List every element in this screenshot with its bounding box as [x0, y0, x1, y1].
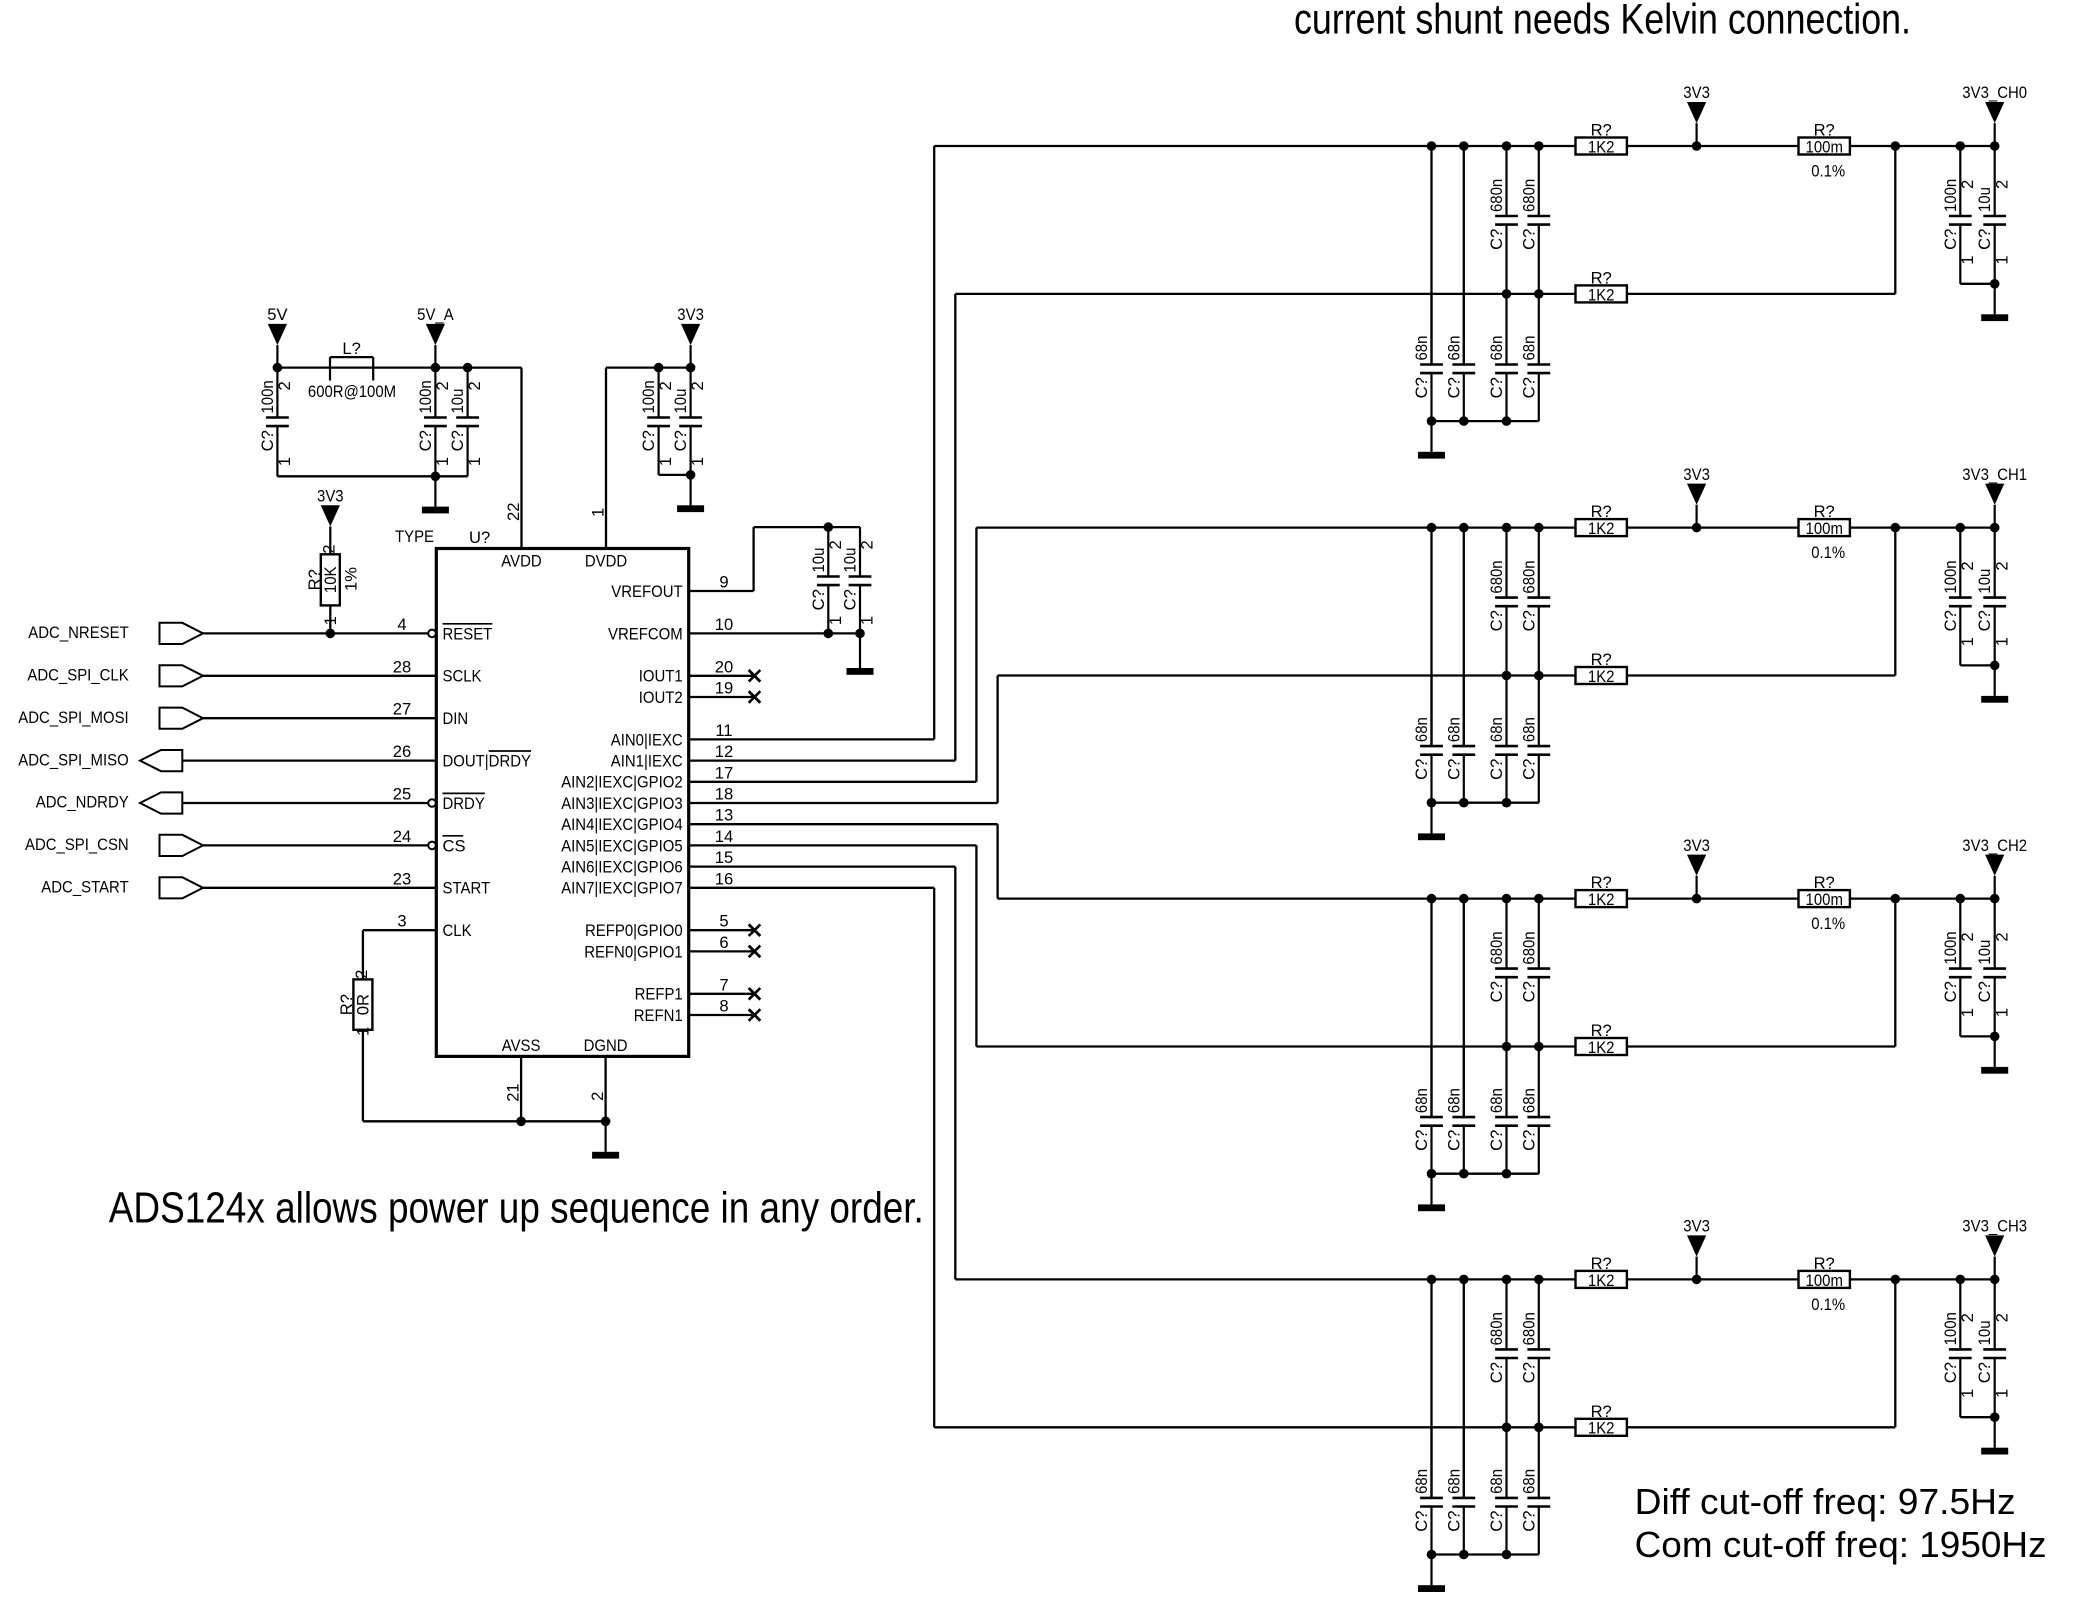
svg-text:3V3_CH1: 3V3_CH1: [1962, 465, 2027, 484]
svg-text:1: 1: [688, 457, 707, 466]
inductor L? 600R@100M: [308, 339, 396, 401]
junction CH0- cap bus a: [1502, 289, 1512, 299]
svg-text:DGND: DGND: [584, 1036, 628, 1055]
svg-text:14: 14: [715, 827, 733, 846]
ground CH3 output: [1981, 1417, 2008, 1454]
junction CH3+ cap bus: [1427, 1275, 1437, 1285]
svg-text:68n: 68n: [1444, 1469, 1463, 1494]
svg-text:680n: 680n: [1519, 931, 1538, 964]
capacitor C? 10u (VREF b): [841, 527, 877, 633]
junction CH2- cap bus b: [1534, 1042, 1544, 1052]
power flag 3V3 CH3: [1683, 1217, 1710, 1280]
capacitor C? 68n CH2 a: [1412, 1047, 1443, 1174]
power flag 3V3_CH2: [1962, 836, 2027, 899]
svg-text:AIN1|IEXC: AIN1|IEXC: [611, 752, 683, 771]
svg-text:AIN6|IEXC|GPIO6: AIN6|IEXC|GPIO6: [561, 858, 683, 877]
svg-text:REFN1: REFN1: [634, 1006, 683, 1025]
no-connect REFP0: [749, 924, 761, 936]
svg-text:C?: C?: [1444, 377, 1463, 398]
svg-text:1: 1: [1958, 1008, 1977, 1017]
resistor R? 1K2 CH2-: [1576, 1021, 1627, 1057]
junction CH3+ cap bus: [1534, 1275, 1544, 1285]
junction CH3+ cap bus: [1459, 1275, 1469, 1285]
svg-text:1K2: 1K2: [1588, 1271, 1615, 1290]
capacitor C? 100n (5V_A): [416, 368, 452, 477]
svg-text:C?: C?: [1975, 981, 1994, 1002]
svg-text:C?: C?: [1412, 759, 1431, 780]
junction 100n cap 3V3: [654, 363, 664, 373]
svg-text:68n: 68n: [1444, 717, 1463, 742]
capacitor C? 68n CH0 d: [1519, 294, 1550, 421]
wire CH2 output caps bus: [1960, 1035, 1994, 1037]
wire REFN0 stub: [689, 950, 755, 952]
wire CH0+ row mid: [1627, 145, 1799, 147]
junction CH0 gnd bus b: [1459, 416, 1469, 426]
svg-text:2: 2: [1958, 180, 1977, 189]
junction CH3- cap bus a: [1502, 1423, 1512, 1433]
svg-text:21: 21: [503, 1083, 522, 1101]
junction CH3 gnd bus b: [1459, 1550, 1469, 1560]
svg-text:C?: C?: [1519, 981, 1538, 1002]
svg-text:2: 2: [588, 1092, 607, 1101]
svg-text:AIN2|IEXC|GPIO2: AIN2|IEXC|GPIO2: [561, 773, 683, 792]
wire DVDD pin 1: [605, 368, 607, 549]
wire CH3 col2 through: [1463, 1279, 1465, 1498]
svg-text:5V_A: 5V_A: [417, 305, 454, 324]
svg-text:1K2: 1K2: [1588, 285, 1615, 304]
input port ADC_START: [41, 877, 203, 898]
junction CH0 3V3 feed: [1692, 141, 1702, 151]
svg-text:1: 1: [858, 616, 877, 625]
wire CH1+ row left: [976, 526, 1575, 528]
svg-text:C?: C?: [1941, 229, 1960, 250]
svg-text:0.1%: 0.1%: [1811, 543, 1845, 562]
svg-text:CLK: CLK: [443, 921, 472, 940]
svg-text:68n: 68n: [1487, 717, 1506, 742]
junction CH2+ cap bus: [1427, 894, 1437, 904]
svg-text:10u: 10u: [1975, 569, 1994, 594]
svg-text:ADC_SPI_CSN: ADC_SPI_CSN: [25, 835, 129, 854]
junction VREFCOM cap a: [824, 629, 834, 639]
junction CH2 gnd bus b: [1459, 1169, 1469, 1179]
wire CH3 Kelvin sense riser: [1894, 1279, 1896, 1427]
svg-text:C?: C?: [809, 589, 828, 610]
junction CH2+ cap bus: [1534, 894, 1544, 904]
svg-text:C?: C?: [1487, 377, 1506, 398]
svg-text:IOUT2: IOUT2: [639, 688, 683, 707]
svg-text:680n: 680n: [1519, 560, 1538, 593]
resistor R? 0R: [337, 970, 373, 1036]
wire 5V caps ground bus: [277, 475, 467, 477]
svg-text:3V3: 3V3: [677, 305, 704, 324]
junction CH2+ cap bus: [1502, 894, 1512, 904]
svg-text:0.1%: 0.1%: [1811, 162, 1845, 181]
capacitor C? 10u (3V3): [671, 368, 707, 475]
svg-text:C?: C?: [1941, 1362, 1960, 1383]
svg-text:1: 1: [1958, 637, 1977, 646]
svg-text:1: 1: [1958, 1389, 1977, 1398]
svg-text:2: 2: [275, 381, 294, 390]
svg-text:20: 20: [715, 657, 733, 676]
svg-text:3V3_CH2: 3V3_CH2: [1962, 836, 2027, 855]
svg-text:DOUT|DRDY: DOUT|DRDY: [443, 752, 532, 771]
junction CH2 Kelvin tap: [1891, 894, 1901, 904]
svg-text:AIN7|IEXC|GPIO7: AIN7|IEXC|GPIO7: [561, 879, 683, 898]
svg-text:2: 2: [1992, 561, 2011, 570]
svg-text:C?: C?: [448, 430, 467, 451]
capacitor C? 68n CH1 c: [1487, 676, 1518, 803]
capacitor C? 100n CH2: [1941, 899, 1977, 1037]
wire AIN5 to CH2- stub: [689, 844, 977, 846]
junction CH3 100n: [1956, 1275, 1966, 1285]
svg-text:2: 2: [1958, 932, 1977, 941]
junction CH3 10u: [1990, 1275, 2000, 1285]
svg-text:28: 28: [393, 657, 411, 676]
svg-text:AIN3|IEXC|GPIO3: AIN3|IEXC|GPIO3: [561, 794, 683, 813]
svg-text:C?: C?: [1975, 610, 1994, 631]
wire CH3 68n ground bus: [1432, 1553, 1539, 1555]
svg-text:C?: C?: [1975, 229, 1994, 250]
svg-text:3V3: 3V3: [1683, 465, 1710, 484]
svg-text:2: 2: [1958, 561, 1977, 570]
resistor R? 1K2 CH1+: [1576, 502, 1627, 538]
wire AIN4 to CH2+ stub: [689, 823, 998, 825]
svg-text:2: 2: [688, 381, 707, 390]
wire VREFOUT riser: [752, 527, 754, 591]
junction VREFOUT cap: [824, 522, 834, 532]
junction CH1 gnd bus a: [1427, 798, 1437, 808]
junction CH1- cap bus a: [1502, 671, 1512, 681]
junction CH0 10u: [1990, 141, 2000, 151]
op-amp U? ADC IC body: [436, 549, 688, 1057]
wire REFP1 stub: [689, 993, 755, 995]
wire CH1+ row right: [1850, 526, 1995, 528]
svg-text:1: 1: [433, 457, 452, 466]
svg-text:current shunt needs Kelvin con: current shunt needs Kelvin connection.: [1294, 0, 1911, 43]
junction CH3 output caps: [1990, 1412, 2000, 1422]
svg-text:23: 23: [393, 869, 411, 888]
svg-text:1K2: 1K2: [1588, 890, 1615, 909]
capacitor C? 10u CH0: [1975, 146, 2011, 284]
junction CH0 output caps: [1990, 279, 2000, 289]
svg-text:C?: C?: [1487, 610, 1506, 631]
svg-text:68n: 68n: [1487, 1088, 1506, 1113]
svg-text:100m: 100m: [1806, 519, 1843, 538]
junction CH1+ cap bus: [1427, 523, 1437, 533]
svg-text:15: 15: [715, 848, 733, 867]
capacitor C? 680n CH1 b: [1519, 528, 1550, 676]
capacitor C? 100n CH0: [1941, 146, 1977, 284]
svg-text:10u: 10u: [1975, 1321, 1994, 1346]
svg-text:19: 19: [715, 679, 733, 698]
ground CH3 filter: [1418, 1555, 1445, 1592]
output port ADC_NDRDY: [36, 792, 183, 813]
wire 5V/5V_A rail: [277, 366, 521, 368]
junction CH0+ cap bus: [1427, 141, 1437, 151]
ground CH2 output: [1981, 1036, 2008, 1073]
wire ADC_SPI_MOSI to DIN: [203, 717, 436, 719]
svg-text:C?: C?: [1412, 1511, 1431, 1532]
svg-text:600R@100M: 600R@100M: [308, 382, 396, 401]
svg-text:REFN0|GPIO1: REFN0|GPIO1: [584, 942, 683, 961]
junction CH0 Kelvin tap: [1891, 141, 1901, 151]
power flag 3V3 (pullup): [317, 486, 344, 554]
wire CH1- row left: [998, 674, 1576, 676]
svg-text:C?: C?: [1519, 1362, 1538, 1383]
svg-text:5: 5: [719, 912, 728, 931]
svg-text:10u: 10u: [1975, 940, 1994, 965]
wire ADC_NDRDY to DRDY: [182, 802, 428, 804]
junction CH2 output caps: [1990, 1032, 2000, 1042]
svg-text:VREFCOM: VREFCOM: [608, 624, 683, 643]
svg-text:C?: C?: [671, 430, 690, 451]
input port ADC_SPI_CLK: [27, 665, 203, 686]
svg-text:2: 2: [858, 540, 877, 549]
svg-text:REFP1: REFP1: [635, 985, 683, 1004]
svg-text:1: 1: [1992, 255, 2011, 264]
capacitor C? 68n CH0 b: [1444, 295, 1475, 422]
svg-text:10: 10: [715, 615, 733, 634]
wire CH2- row left: [976, 1045, 1575, 1047]
pin name CS: [443, 836, 466, 856]
svg-text:Com cut-off freq: 1950Hz: Com cut-off freq: 1950Hz: [1635, 1524, 2047, 1565]
svg-text:1%: 1%: [342, 567, 361, 591]
svg-text:26: 26: [393, 742, 411, 761]
junction CH1 3V3 feed: [1692, 523, 1702, 533]
svg-text:680n: 680n: [1519, 1312, 1538, 1345]
output port ADC_SPI_MISO: [18, 750, 182, 771]
svg-text:ADS124x allows power up sequen: ADS124x allows power up sequence in any …: [109, 1183, 924, 1232]
svg-text:1: 1: [1958, 255, 1977, 264]
svg-text:REFP0|GPIO0: REFP0|GPIO0: [585, 921, 683, 940]
wire CH3 output caps bus: [1960, 1416, 1994, 1418]
svg-text:1: 1: [1992, 637, 2011, 646]
wire CH0 output caps bus: [1960, 283, 1994, 285]
ground CH2 filter: [1418, 1174, 1445, 1211]
pin name DRDY: [443, 793, 485, 813]
pin name START: [443, 879, 491, 898]
junction CH3- cap bus b: [1534, 1423, 1544, 1433]
svg-text:C?: C?: [1519, 1130, 1538, 1151]
svg-text:100m: 100m: [1806, 137, 1843, 156]
junction CH1 gnd bus c: [1502, 798, 1512, 808]
inverted pin circle CS: [428, 842, 436, 850]
wire AIN2 to CH1+ riser: [975, 528, 977, 782]
svg-text:680n: 680n: [1487, 1312, 1506, 1345]
wire ADC_START to START: [203, 887, 436, 889]
capacitor C? 100n CH1: [1941, 528, 1977, 666]
wire R? 0R to AVSS net: [362, 1030, 364, 1122]
capacitor C? 100n CH3: [1941, 1279, 1977, 1417]
resistor R? 1K2 CH3+: [1576, 1254, 1627, 1290]
svg-text:68n: 68n: [1444, 336, 1463, 361]
junction CH2 gnd bus c: [1502, 1169, 1512, 1179]
svg-text:C?: C?: [1975, 1362, 1994, 1383]
junction CH3 Kelvin tap: [1891, 1275, 1901, 1285]
svg-text:68n: 68n: [1519, 717, 1538, 742]
wire CH0 col1 through: [1430, 146, 1432, 365]
svg-text:16: 16: [715, 869, 733, 888]
svg-text:AVDD: AVDD: [501, 551, 541, 570]
junction CH0+ cap bus: [1502, 141, 1512, 151]
svg-text:ADC_SPI_CLK: ADC_SPI_CLK: [27, 666, 128, 685]
svg-text:DIN: DIN: [443, 709, 469, 728]
wire AVSS pin 21: [520, 1056, 522, 1121]
junction caps ground bus: [431, 472, 441, 482]
svg-text:C?: C?: [1412, 1130, 1431, 1151]
svg-text:68n: 68n: [1412, 1088, 1431, 1113]
wire AIN0 to CH0+ riser: [933, 146, 935, 739]
svg-text:1: 1: [826, 616, 845, 625]
wire CLK: [363, 929, 436, 931]
svg-text:C?: C?: [1941, 610, 1960, 631]
pin name DIN: [443, 709, 469, 728]
resistor R? 1K2 CH3-: [1576, 1402, 1627, 1438]
wire IOUT1 stub: [689, 675, 755, 677]
svg-text:2: 2: [1992, 1313, 2011, 1322]
svg-text:AIN5|IEXC|GPIO5: AIN5|IEXC|GPIO5: [561, 836, 683, 855]
wire AVDD pin 22: [520, 368, 522, 549]
input port ADC_NRESET: [28, 623, 203, 644]
wire ADC_NRESET to RESET: [203, 632, 428, 634]
wire AIN4 to CH2+ riser: [996, 824, 998, 898]
power flag 3V3 CH2: [1683, 836, 1710, 899]
svg-text:3V3: 3V3: [317, 486, 344, 505]
wire CH1 col2 through: [1463, 528, 1465, 747]
wire CH1 68n ground bus: [1432, 802, 1539, 804]
capacitor C? 68n CH3 b: [1444, 1428, 1475, 1555]
svg-text:22: 22: [504, 503, 523, 521]
svg-text:3V3: 3V3: [1683, 836, 1710, 855]
wire ADC_SPI_CSN to CS: [203, 844, 428, 846]
wire CH1 col1 through: [1430, 528, 1432, 747]
junction CH1 output caps: [1990, 661, 2000, 671]
junction CH0+ cap bus: [1459, 141, 1469, 151]
wire CH1+ row mid: [1627, 526, 1799, 528]
svg-text:TYPE: TYPE: [395, 527, 434, 546]
wire CH0 68n ground bus: [1432, 420, 1539, 422]
svg-text:1: 1: [1992, 1008, 2011, 1017]
ground CH0 filter: [1418, 421, 1445, 458]
capacitor C? 10u CH2: [1975, 899, 2011, 1037]
svg-text:68n: 68n: [1412, 1469, 1431, 1494]
junction CH2+ cap bus: [1459, 894, 1469, 904]
capacitor C? 68n CH2 b: [1444, 1047, 1475, 1174]
capacitor C? 68n CH3 c: [1487, 1427, 1518, 1554]
wire AIN2 to CH1+ stub: [689, 781, 977, 783]
svg-text:C?: C?: [1519, 610, 1538, 631]
wire AIN1 to CH0- riser: [954, 294, 956, 761]
svg-text:68n: 68n: [1444, 1088, 1463, 1113]
junction VREFCOM cap b: [855, 629, 865, 639]
svg-text:L?: L?: [342, 339, 360, 358]
junction CH3 3V3 feed: [1692, 1275, 1702, 1285]
svg-text:11: 11: [715, 721, 732, 740]
wire CH2 Kelvin sense riser: [1894, 899, 1896, 1047]
svg-text:C?: C?: [1941, 981, 1960, 1002]
junction CH1 100n: [1956, 523, 1966, 533]
svg-text:SCLK: SCLK: [443, 667, 482, 686]
wire CH2+ row left: [998, 897, 1576, 899]
svg-text:18: 18: [715, 785, 733, 804]
svg-text:680n: 680n: [1487, 179, 1506, 212]
svg-text:1K2: 1K2: [1588, 519, 1615, 538]
power flag 3V3_CH0: [1962, 83, 2027, 146]
svg-text:C?: C?: [1487, 759, 1506, 780]
svg-text:10u: 10u: [841, 548, 860, 573]
no-connect IOUT2: [749, 691, 761, 703]
junction CH1+ cap bus: [1502, 523, 1512, 533]
svg-text:AIN4|IEXC|GPIO4: AIN4|IEXC|GPIO4: [561, 815, 683, 834]
svg-text:2: 2: [465, 381, 484, 390]
wire AIN3 to CH1- riser: [996, 676, 998, 804]
svg-text:2: 2: [320, 545, 339, 554]
svg-text:1: 1: [589, 508, 608, 517]
wire AVSS/DGND bus: [363, 1120, 606, 1122]
wire CLK to R? 0R: [362, 930, 364, 979]
svg-text:C?: C?: [1444, 1511, 1463, 1532]
svg-text:1K2: 1K2: [1588, 137, 1615, 156]
svg-text:68n: 68n: [1487, 1469, 1506, 1494]
svg-text:68n: 68n: [1412, 336, 1431, 361]
svg-text:4: 4: [397, 615, 406, 634]
junction 3V3 caps ground: [686, 470, 696, 480]
junction CH1 10u: [1990, 523, 2000, 533]
wire CH3+ row mid: [1627, 1278, 1799, 1280]
svg-text:680n: 680n: [1487, 560, 1506, 593]
svg-text:68n: 68n: [1487, 336, 1506, 361]
svg-text:C?: C?: [1444, 1130, 1463, 1151]
svg-text:3V3_CH0: 3V3_CH0: [1962, 83, 2027, 102]
svg-text:C?: C?: [1519, 229, 1538, 250]
resistor R? 1K2 CH0+: [1576, 121, 1627, 157]
svg-text:ADC_START: ADC_START: [41, 878, 128, 897]
svg-text:IOUT1: IOUT1: [639, 667, 683, 686]
svg-text:68n: 68n: [1412, 717, 1431, 742]
junction CH2 gnd bus a: [1427, 1169, 1437, 1179]
wire CH3- row right: [1627, 1426, 1895, 1428]
capacitor C? 680n CH2 b: [1519, 899, 1550, 1047]
junction CH0+ cap bus: [1534, 141, 1544, 151]
capacitor C? 68n CH0 a: [1412, 295, 1443, 422]
svg-text:1K2: 1K2: [1588, 1038, 1615, 1057]
svg-text:3V3: 3V3: [1683, 83, 1710, 102]
wire CH3+ row left: [955, 1278, 1575, 1280]
svg-text:ADC_NRESET: ADC_NRESET: [28, 623, 128, 642]
power flag 5V_A: [417, 305, 454, 368]
wire AIN5 to CH2- riser: [975, 845, 977, 1046]
svg-text:DVDD: DVDD: [585, 551, 627, 570]
junction CH1+ cap bus: [1459, 523, 1469, 533]
svg-text:C?: C?: [1487, 1511, 1506, 1532]
inverted pin circle RESET: [428, 630, 436, 638]
wire CH1- row right: [1627, 674, 1895, 676]
capacitor C? 68n CH3 d: [1519, 1427, 1550, 1554]
svg-text:C?: C?: [1519, 759, 1538, 780]
svg-text:10u: 10u: [671, 389, 690, 414]
capacitor C? 680n CH1 a: [1487, 528, 1518, 676]
svg-text:68n: 68n: [1519, 1088, 1538, 1113]
capacitor C? 68n CH3 a: [1412, 1428, 1443, 1555]
pin name CLK: [443, 921, 472, 940]
input port ADC_SPI_MOSI: [18, 708, 203, 729]
svg-text:START: START: [443, 879, 491, 898]
svg-text:C?: C?: [416, 430, 435, 451]
pin name RESET: [443, 624, 493, 644]
ground (5V_A caps): [422, 476, 449, 513]
svg-text:2: 2: [1958, 1313, 1977, 1322]
ground CH0 output: [1981, 284, 2008, 321]
